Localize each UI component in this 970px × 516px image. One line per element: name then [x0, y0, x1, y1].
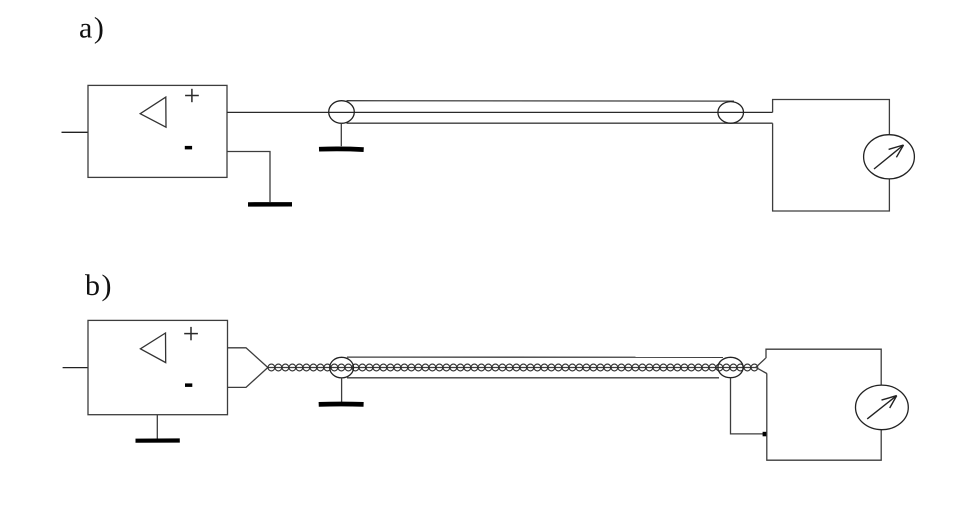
plus terminal a [185, 89, 199, 102]
wire output plus b (to fork) [228, 348, 268, 368]
wire input a [62, 131, 89, 133]
ground coax b [341, 378, 343, 403]
meter M2 b [856, 385, 909, 430]
ground amp a [248, 202, 292, 206]
ground coax a [340, 123, 342, 146]
wire output minus b (to fork) [228, 368, 268, 388]
coax shield bottom line a [347, 122, 773, 124]
wire output plus a [227, 111, 773, 113]
load box b [766, 349, 881, 460]
fork to load b [756, 358, 767, 373]
coax shield bottom line b [347, 377, 719, 379]
load box a [773, 100, 890, 212]
coax shield top line b [347, 356, 723, 358]
svg-text:b): b) [85, 269, 113, 302]
meter M1 a [864, 135, 915, 179]
op-amp triangle b [140, 333, 165, 363]
wire output minus a [227, 152, 270, 203]
twisted pair chain b [268, 364, 758, 371]
shield ground wire to node b [731, 378, 764, 434]
amplifier box A2 [88, 320, 228, 414]
coax end circle left a [329, 101, 355, 124]
node junction square b [763, 432, 767, 437]
twisted pair centre line b [268, 367, 756, 369]
coax end circle right a [718, 102, 744, 124]
coax end circle left b [330, 357, 354, 378]
minus terminal a [185, 146, 192, 150]
svg-text:a): a) [79, 12, 105, 45]
plus terminal b [184, 327, 198, 340]
wire input b [63, 367, 88, 369]
amplifier box A1 [88, 85, 227, 177]
ground amp b [156, 415, 158, 439]
coax shield top line a [347, 100, 735, 102]
op-amp triangle a [140, 97, 166, 127]
coax end circle right b [718, 357, 743, 377]
minus terminal b [185, 383, 192, 387]
